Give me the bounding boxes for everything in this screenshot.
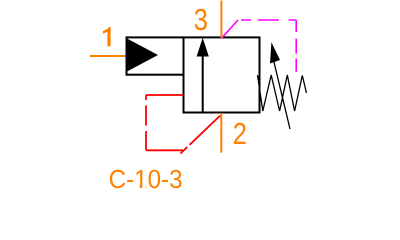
adjustment arrow head	[270, 42, 280, 63]
drain pilot line red vertical	[145, 95, 147, 150]
wire port 1 lead	[90, 55, 127, 57]
pilot line magenta horizontal run	[241, 19, 296, 21]
label port 1	[103, 27, 111, 46]
wire port 3 lead	[220, 1, 222, 38]
check valve triangle	[127, 39, 158, 72]
pilot line magenta diagonal from port 3	[222, 20, 239, 38]
check valve box	[127, 37, 184, 74]
svg-text:3: 3	[194, 2, 208, 37]
spring	[258, 75, 307, 111]
adjustment arrow shaft	[274, 60, 291, 129]
main valve body box	[184, 37, 260, 112]
drain pilot line red horizontal from box	[146, 94, 184, 96]
wire port 2 lead	[220, 113, 222, 153]
label C-10-3 digit 1 foot removal	[136, 186, 146, 189]
flow arrow shaft	[202, 55, 204, 113]
svg-text:2: 2	[233, 117, 247, 152]
drain pilot line red bottom horizontal	[146, 149, 183, 151]
flow arrow head	[197, 38, 209, 57]
pilot line magenta vertical drop to spring	[295, 20, 297, 74]
drain pilot line red diagonal to port 2	[181, 114, 222, 153]
svg-text:C-10-3: C-10-3	[109, 165, 183, 194]
